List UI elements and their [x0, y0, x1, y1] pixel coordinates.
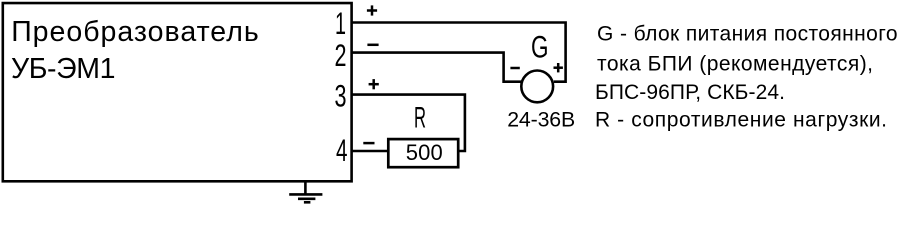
ground — [289, 181, 322, 202]
power source G circle — [521, 71, 553, 103]
minus label pin2 — [367, 44, 378, 47]
svg-text:R: R — [414, 102, 426, 135]
svg-text:Преобразователь: Преобразователь — [11, 16, 259, 48]
svg-text:УБ-ЭМ1: УБ-ЭМ1 — [11, 53, 116, 85]
wire pin2 to G minus side — [352, 53, 521, 82]
svg-text:G: G — [531, 29, 549, 65]
resistor R box — [388, 139, 458, 167]
svg-text:1: 1 — [335, 5, 346, 41]
legend text — [595, 23, 898, 132]
minus label G — [510, 67, 519, 70]
plus label G — [554, 63, 563, 72]
svg-text:тока БПИ (рекомендуется),: тока БПИ (рекомендуется), — [597, 53, 873, 76]
svg-text:4: 4 — [336, 132, 348, 168]
svg-text:2: 2 — [335, 37, 347, 73]
plus label pin3 — [369, 79, 379, 89]
wire pin4 to resistor left — [352, 150, 390, 153]
minus label pin4 — [363, 142, 374, 145]
svg-text:24-36В: 24-36В — [507, 107, 575, 131]
svg-text:БПС-96ПР, СКБ-24.: БПС-96ПР, СКБ-24. — [595, 81, 785, 104]
converter box УБ-ЭМ1 — [3, 3, 352, 181]
plus label pin1 — [367, 5, 377, 15]
wire pin1 to G plus side — [352, 23, 566, 82]
svg-text:G - блок питания постоянного: G - блок питания постоянного — [597, 23, 898, 46]
label Преобразователь УБ-ЭМ1 — [11, 16, 259, 85]
svg-text:3: 3 — [335, 78, 347, 114]
svg-text:R - сопротивление нагрузки.: R - сопротивление нагрузки. — [595, 109, 887, 132]
wire pin3 to resistor right — [352, 95, 465, 151]
svg-text:500: 500 — [406, 140, 443, 165]
